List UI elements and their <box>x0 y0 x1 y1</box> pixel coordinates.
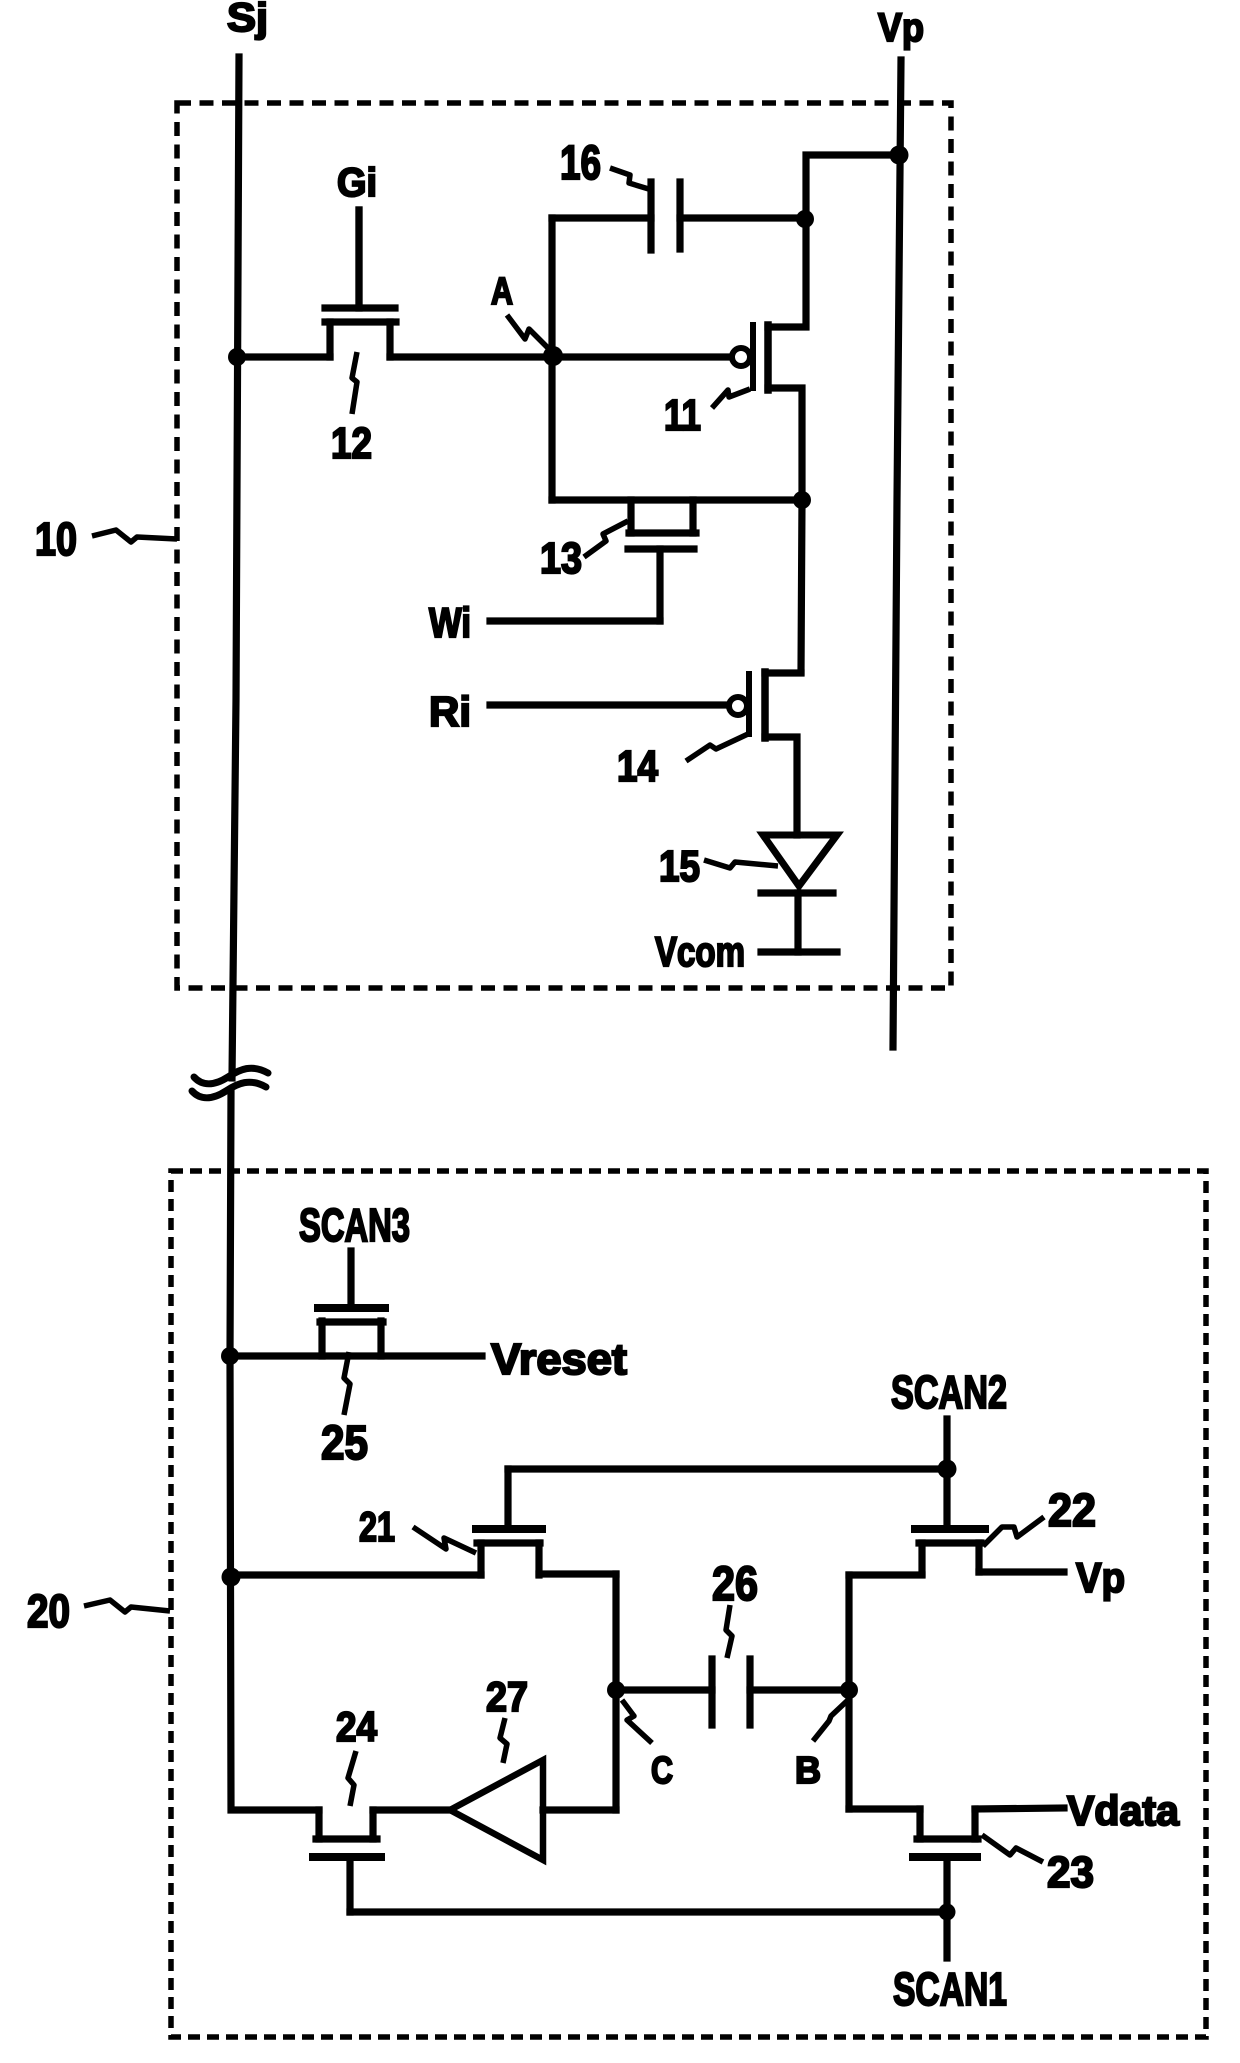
svg-text:B: B <box>795 1750 821 1792</box>
svg-text:A: A <box>491 271 513 313</box>
svg-text:Vp: Vp <box>878 6 924 50</box>
svg-text:SCAN3: SCAN3 <box>299 1199 410 1251</box>
svg-text:Vcom: Vcom <box>655 928 745 975</box>
svg-text:Vp: Vp <box>1076 1554 1125 1601</box>
svg-text:Wi: Wi <box>429 599 471 646</box>
svg-text:Vdata: Vdata <box>1067 1787 1180 1834</box>
svg-text:16: 16 <box>560 137 601 190</box>
svg-text:27: 27 <box>486 1673 528 1720</box>
svg-text:10: 10 <box>35 513 77 565</box>
svg-text:25: 25 <box>321 1417 368 1470</box>
svg-text:Ri: Ri <box>429 688 471 735</box>
svg-text:23: 23 <box>1047 1848 1094 1897</box>
svg-text:C: C <box>651 1750 673 1792</box>
svg-text:11: 11 <box>664 391 701 440</box>
svg-text:14: 14 <box>617 742 658 791</box>
svg-text:26: 26 <box>712 1558 758 1611</box>
svg-text:13: 13 <box>540 534 582 583</box>
svg-text:24: 24 <box>336 1703 378 1750</box>
svg-text:Vreset: Vreset <box>491 1335 627 1384</box>
svg-text:21: 21 <box>359 1503 395 1550</box>
svg-text:22: 22 <box>1048 1484 1096 1536</box>
svg-text:15: 15 <box>659 842 700 891</box>
svg-text:Sj: Sj <box>227 0 268 40</box>
svg-text:12: 12 <box>331 419 372 468</box>
svg-text:20: 20 <box>27 1585 70 1637</box>
svg-text:Gi: Gi <box>337 161 377 205</box>
svg-text:SCAN2: SCAN2 <box>891 1366 1007 1418</box>
svg-text:SCAN1: SCAN1 <box>893 1963 1007 2015</box>
